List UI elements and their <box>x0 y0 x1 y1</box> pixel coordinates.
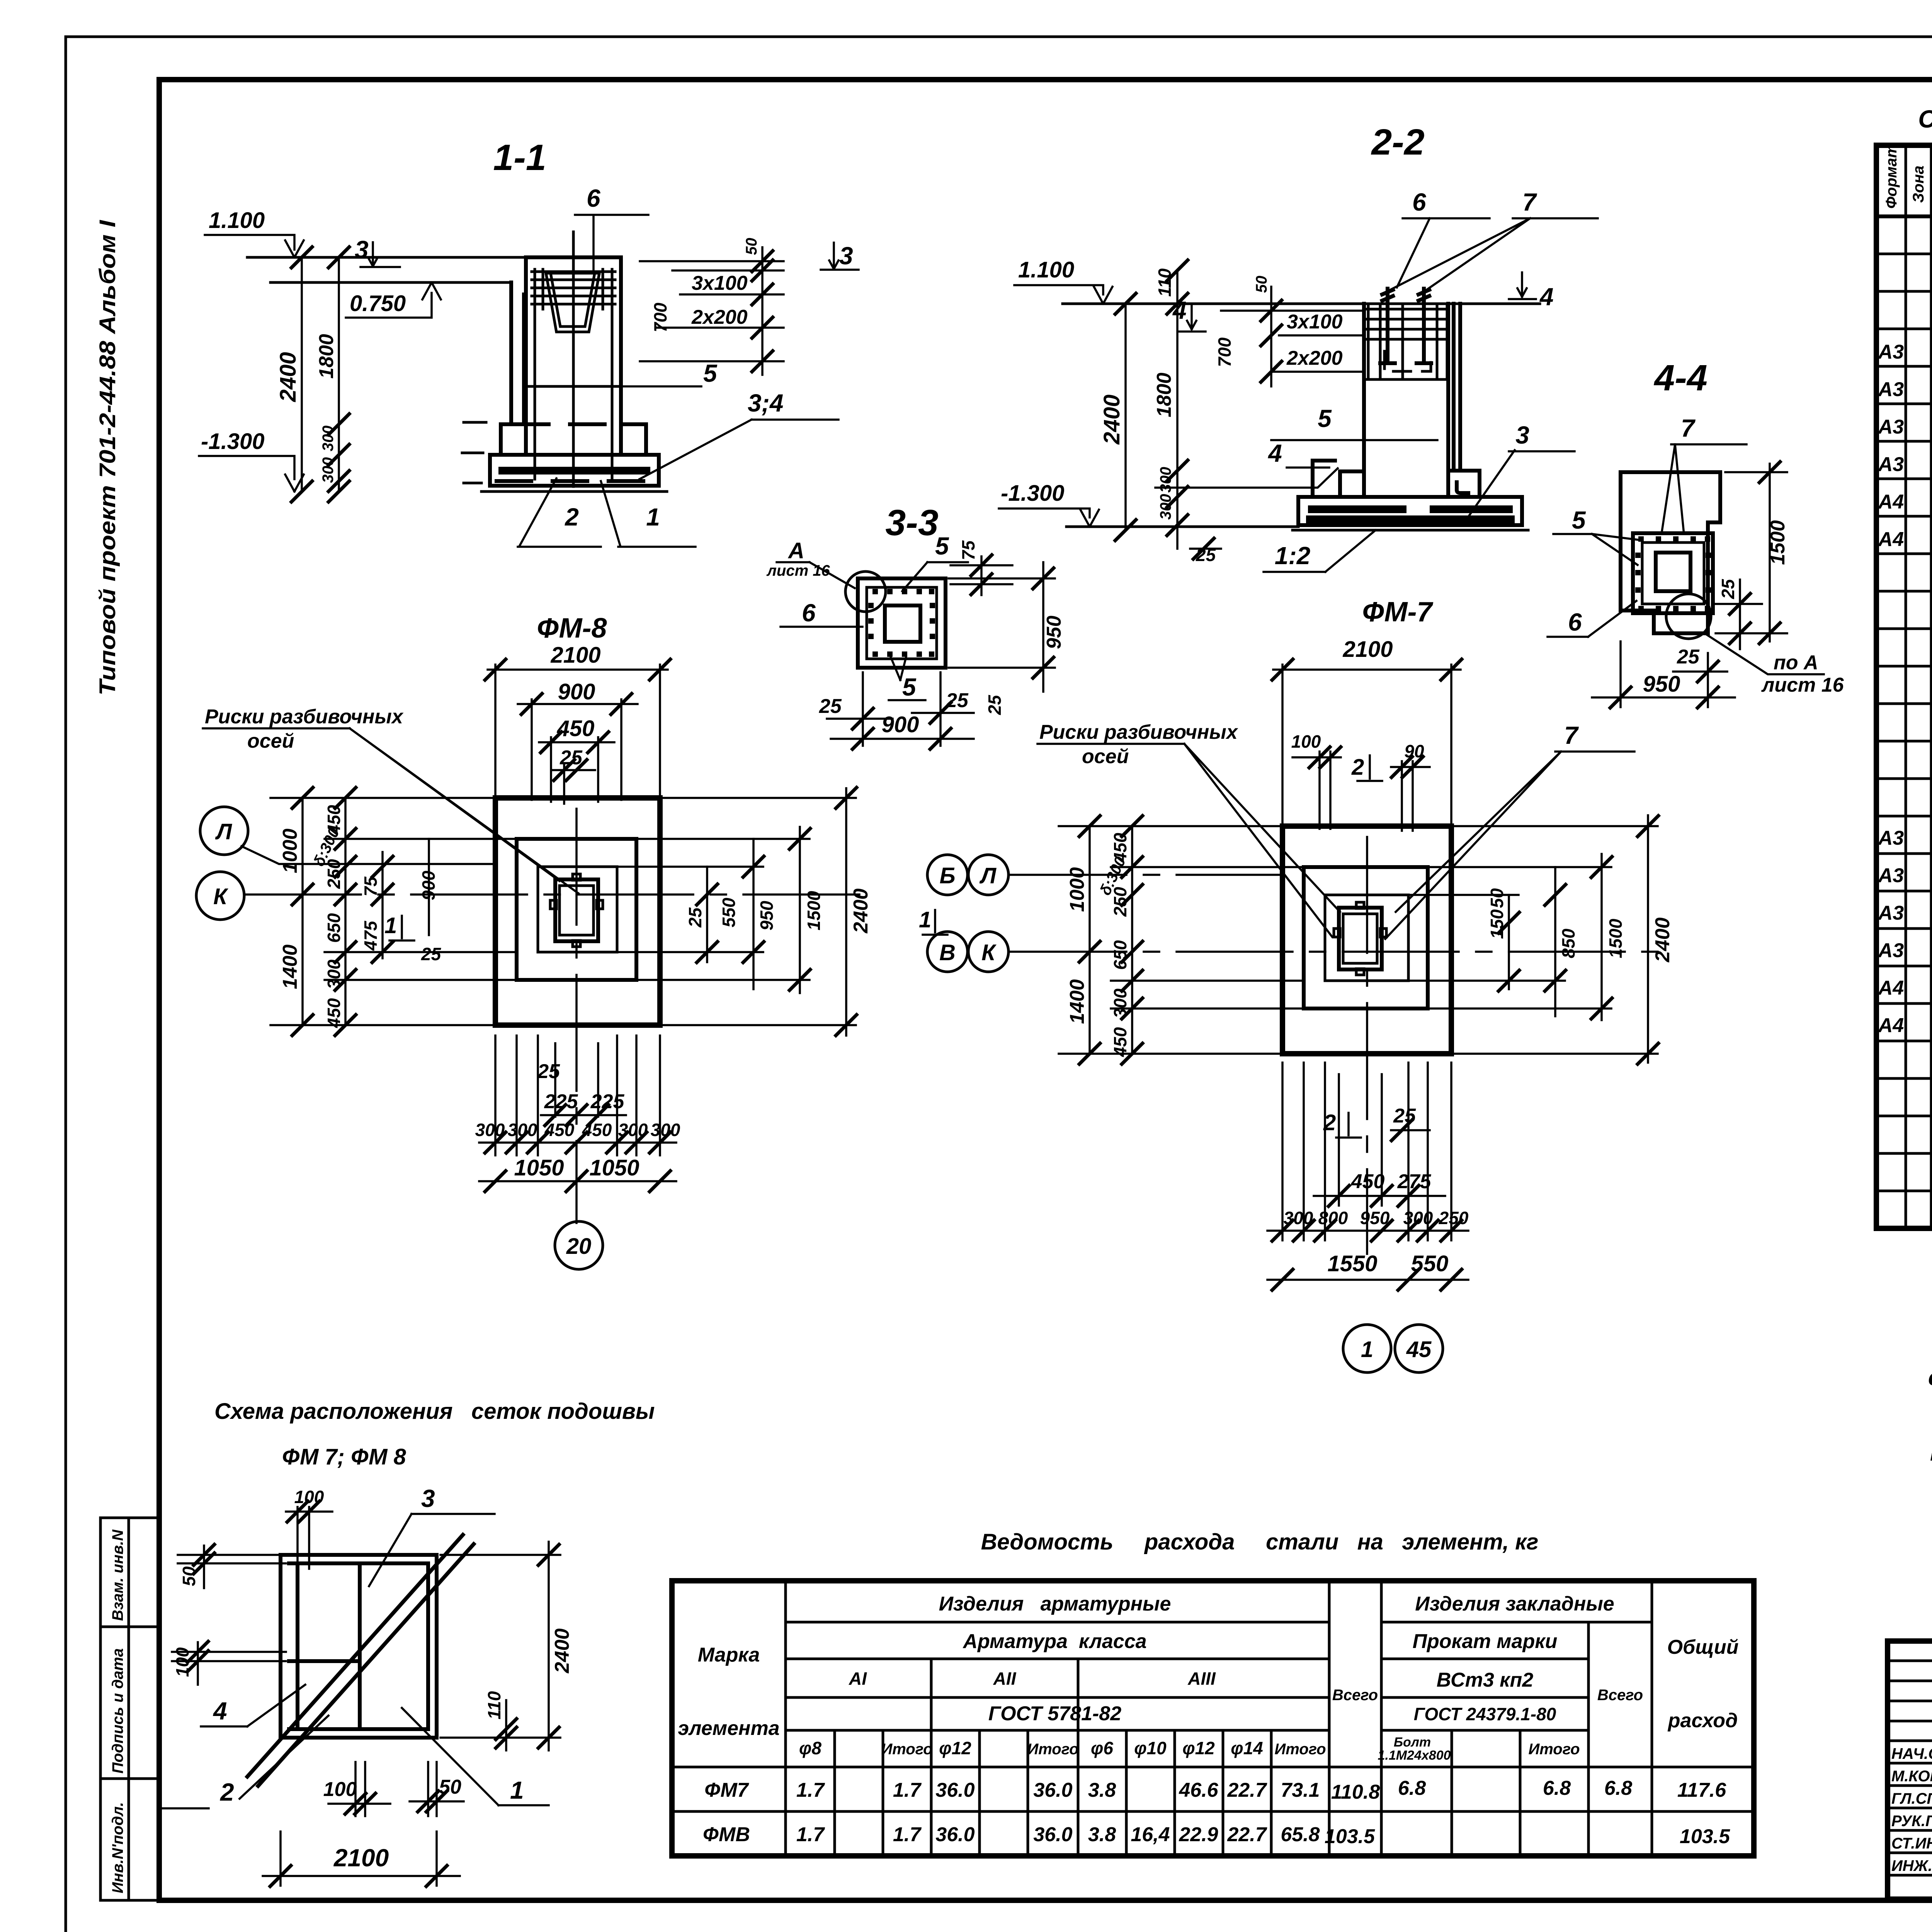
svg-text:А3: А3 <box>1878 864 1904 887</box>
top small dims 100 90 <box>1291 731 1430 831</box>
top dim 2100 <box>484 643 672 798</box>
svg-text:1.100: 1.100 <box>1018 257 1074 282</box>
level mark 1.100 <box>205 208 304 257</box>
bottom dims 25 900 25 <box>819 672 974 750</box>
label 1 <box>402 1708 549 1805</box>
top mesh grid <box>1366 306 1448 379</box>
svg-text:36.0: 36.0 <box>935 1823 975 1846</box>
svg-text:2: 2 <box>1351 755 1364 780</box>
outer footing square <box>495 798 660 1025</box>
svg-text:ВСт3 кп2: ВСт3 кп2 <box>1437 1669 1534 1691</box>
top dim 450 <box>539 716 614 802</box>
svg-text:Прокат марки: Прокат марки <box>1413 1630 1558 1653</box>
svg-text:1000: 1000 <box>1066 867 1088 912</box>
axis circles 1 45 <box>1343 1325 1391 1372</box>
inner border <box>867 587 937 659</box>
svg-text:К: К <box>213 884 228 909</box>
svg-text:φ12: φ12 <box>1182 1738 1215 1758</box>
label 6 <box>1548 601 1636 637</box>
dim 2400 vertical <box>276 246 313 503</box>
dim 950 right <box>949 562 1065 715</box>
svg-text:А3: А3 <box>1878 341 1904 363</box>
anchor bolts <box>1380 289 1431 363</box>
svg-text:300: 300 <box>1157 494 1174 520</box>
svg-text:110: 110 <box>1155 268 1175 297</box>
svg-text:А3: А3 <box>1878 453 1904 476</box>
label 5 <box>1553 506 1638 565</box>
step 3 square <box>1325 895 1408 981</box>
svg-text:450: 450 <box>1351 1170 1385 1193</box>
svg-text:М.КОНТР.: М.КОНТР. <box>1891 1768 1932 1785</box>
svg-text:А4: А4 <box>1878 491 1904 513</box>
svg-text:осей: осей <box>247 730 294 752</box>
svg-text:700: 700 <box>650 303 670 332</box>
svg-text:900: 900 <box>558 679 595 704</box>
svg-text:2100: 2100 <box>333 1844 389 1872</box>
svg-text:900: 900 <box>882 712 919 737</box>
svg-text:25: 25 <box>685 907 705 928</box>
svg-text:450: 450 <box>544 1120 575 1140</box>
dim 25 right <box>1716 578 1762 649</box>
svg-text:Типовой проект 701-2-44.88 Аль: Типовой проект 701-2-44.88 Альбом I <box>95 219 120 696</box>
svg-text:450: 450 <box>582 1120 612 1140</box>
spec table column lines <box>1906 145 1932 1228</box>
svg-text:475: 475 <box>361 920 381 951</box>
svg-text:16,4: 16,4 <box>1131 1823 1170 1846</box>
svg-text:100: 100 <box>1291 731 1321 752</box>
svg-text:кондукторных устройств.: кондукторных устройств. <box>1930 1440 1932 1466</box>
steel table horizontals <box>672 1622 1754 1811</box>
svg-text:36.0: 36.0 <box>1033 1823 1072 1846</box>
svg-text:950: 950 <box>1643 672 1680 697</box>
dim 1500 right <box>1716 461 1789 645</box>
svg-text:0.750: 0.750 <box>350 291 406 316</box>
section mark 1 left <box>384 913 414 940</box>
diagonal mesh C-3 <box>247 1535 474 1786</box>
svg-text:Взам. инв.N: Взам. инв.N <box>109 1529 126 1621</box>
svg-text:3х100: 3х100 <box>692 272 748 294</box>
node circle A <box>845 571 886 612</box>
svg-text:3: 3 <box>839 242 853 270</box>
svg-text:650: 650 <box>324 913 344 943</box>
axis vertical <box>575 809 578 1223</box>
left dim 450 250 650 300 450 <box>1097 815 1325 1065</box>
svg-text:Изделия арматурные: Изделия арматурные <box>939 1593 1171 1615</box>
axis К horizontal <box>1010 951 1662 953</box>
svg-text:Марка: Марка <box>698 1644 760 1666</box>
svg-text:950: 950 <box>757 901 777 930</box>
dim 100 left <box>172 1640 286 1685</box>
column outline <box>526 257 621 455</box>
svg-text:36.0: 36.0 <box>1033 1779 1072 1801</box>
base line <box>1293 529 1528 532</box>
svg-text:-1.300: -1.300 <box>1001 481 1064 506</box>
svg-text:7: 7 <box>1681 414 1696 442</box>
left dim 1000 1400 <box>270 786 495 1037</box>
dim 110 right <box>484 1691 518 1750</box>
svg-text:Схема расположения сеток под: Схема расположения сеток подошвы <box>214 1399 655 1424</box>
svg-text:2400: 2400 <box>850 888 872 934</box>
glass bolt marks <box>550 874 603 947</box>
glass (стакан) <box>546 273 599 332</box>
svg-text:150: 150 <box>1487 909 1507 939</box>
svg-text:1800: 1800 <box>315 334 338 379</box>
svg-text:Инв.N'подл.: Инв.N'подл. <box>109 1802 126 1893</box>
svg-text:по А: по А <box>1774 651 1818 674</box>
dim 2400 right <box>440 1542 573 1750</box>
svg-text:103.5: 103.5 <box>1680 1825 1730 1848</box>
svg-text:25: 25 <box>985 694 1005 715</box>
svg-text:1400: 1400 <box>1066 979 1088 1024</box>
level mark -1.300 <box>999 481 1298 527</box>
svg-text:300: 300 <box>320 425 337 451</box>
svg-text:2х200: 2х200 <box>691 306 748 328</box>
label 3 <box>1469 421 1575 515</box>
svg-text:5: 5 <box>902 673 917 701</box>
svg-text:А4: А4 <box>1878 528 1904 551</box>
svg-text:1: 1 <box>510 1776 524 1804</box>
svg-text:СТ.ИНЖ.: СТ.ИНЖ. <box>1891 1835 1932 1852</box>
svg-text:АI: АI <box>849 1668 867 1689</box>
section mark 3 right <box>821 242 859 270</box>
svg-text:110.8: 110.8 <box>1331 1781 1380 1803</box>
glass hole <box>1656 553 1690 591</box>
title block outer <box>1888 1641 1932 1899</box>
svg-text:Итого: Итого <box>1027 1741 1078 1758</box>
column axis line 1-1 <box>572 232 575 486</box>
svg-text:Изделия закладные: Изделия закладные <box>1415 1593 1614 1615</box>
svg-text:ФМ-8: ФМ-8 <box>537 613 607 644</box>
section mark 1 left <box>919 907 947 935</box>
svg-text:РУК.ГР.: РУК.ГР. <box>1891 1813 1932 1830</box>
svg-text:1.7: 1.7 <box>796 1779 825 1801</box>
svg-text:20: 20 <box>566 1234 592 1259</box>
svg-text:1500: 1500 <box>1605 918 1626 958</box>
label 7 <box>1662 414 1747 534</box>
axis circles В К <box>927 932 968 972</box>
svg-text:2: 2 <box>220 1778 234 1806</box>
node label A лист 16 <box>766 538 855 588</box>
base line <box>481 490 667 493</box>
svg-text:А3: А3 <box>1878 827 1904 849</box>
svg-text:2400: 2400 <box>1651 917 1674 963</box>
svg-text:100: 100 <box>294 1487 324 1507</box>
wall top line <box>270 281 511 284</box>
svg-text:Спецификация на монолитные: Спецификация на монолитные фундаменты ФМ… <box>1918 105 1932 133</box>
svg-text:2: 2 <box>1323 1110 1336 1135</box>
label 3;4 <box>639 389 838 479</box>
svg-text:ФМ 7; ФМ 8: ФМ 7; ФМ 8 <box>282 1444 406 1469</box>
svg-text:1: 1 <box>646 503 660 531</box>
svg-text:250: 250 <box>1439 1208 1469 1228</box>
svg-text:2100: 2100 <box>1342 637 1393 662</box>
svg-text:300: 300 <box>1157 467 1174 493</box>
mesh bars top <box>532 269 615 479</box>
column glass outer <box>1339 908 1382 969</box>
svg-text:Всего: Всего <box>1332 1687 1378 1704</box>
svg-text:Зона: Зона <box>1910 165 1927 203</box>
svg-text:ИНЖ.: ИНЖ. <box>1891 1857 1932 1874</box>
svg-text:Формат: Формат <box>1883 144 1900 209</box>
svg-text:3: 3 <box>1515 421 1529 449</box>
svg-text:75: 75 <box>958 540 978 560</box>
svg-text:800: 800 <box>1318 1208 1348 1228</box>
svg-text:ФМВ: ФМВ <box>703 1823 750 1846</box>
svg-text:АIII: АIII <box>1187 1668 1216 1689</box>
svg-text:А3: А3 <box>1878 378 1904 401</box>
svg-text:25: 25 <box>537 1060 560 1083</box>
dim 50 bottom <box>410 1762 464 1816</box>
svg-text:3х100: 3х100 <box>1287 311 1343 333</box>
svg-text:6: 6 <box>1412 188 1426 216</box>
left steps <box>1313 461 1364 497</box>
svg-text:А4: А4 <box>1878 977 1904 999</box>
svg-text:46.6: 46.6 <box>1179 1779 1218 1801</box>
svg-text:650: 650 <box>1110 940 1130 970</box>
svg-text:-1.300: -1.300 <box>201 429 264 454</box>
column glass inner <box>1343 914 1377 963</box>
svg-text:1.7: 1.7 <box>893 1779 922 1801</box>
bottom dims <box>1282 1063 1451 1240</box>
svg-text:ГЛ.СПЕЦ.: ГЛ.СПЕЦ. <box>1891 1790 1932 1807</box>
top dim 2100 <box>1271 637 1463 826</box>
svg-text:1.7: 1.7 <box>796 1823 825 1846</box>
step 3 square <box>538 867 617 952</box>
axis К horizontal <box>245 893 869 896</box>
left dim 1000 1400 <box>1059 815 1282 1065</box>
footing mesh thick bars <box>1306 509 1515 519</box>
svg-text:75: 75 <box>361 876 381 896</box>
label 7 bolts <box>1390 188 1598 290</box>
svg-text:6: 6 <box>802 599 816 627</box>
label 5 bottom <box>889 657 925 701</box>
column glass inner <box>560 886 594 935</box>
floor level line <box>247 256 526 259</box>
svg-text:36.0: 36.0 <box>935 1779 975 1801</box>
svg-text:2400: 2400 <box>551 1628 573 1673</box>
cage dots <box>1635 536 1711 611</box>
right dims 150 50 850 1500 2400 <box>1408 815 1674 1065</box>
svg-text:6: 6 <box>1568 608 1582 636</box>
label 4 <box>201 1685 305 1726</box>
step 2 square <box>1304 867 1428 1009</box>
svg-text:2100: 2100 <box>550 643 600 668</box>
svg-text:Арматура класса: Арматура класса <box>962 1630 1146 1653</box>
svg-text:110: 110 <box>484 1691 504 1719</box>
level mark 1.100 <box>1014 257 1112 304</box>
svg-text:2-2: 2-2 <box>1371 122 1424 163</box>
svg-text:300: 300 <box>320 457 337 483</box>
svg-text:450: 450 <box>324 998 344 1028</box>
svg-text:1-1: 1-1 <box>493 137 546 178</box>
svg-text:3-3: 3-3 <box>885 502 938 543</box>
leader риски разбивочных осей <box>1037 721 1340 937</box>
svg-text:117.6: 117.6 <box>1677 1779 1726 1801</box>
svg-text:50: 50 <box>1487 888 1507 908</box>
outer square <box>858 578 946 668</box>
svg-text:700: 700 <box>1214 337 1235 367</box>
svg-text:73.1: 73.1 <box>1281 1779 1320 1801</box>
axis vertical <box>1366 837 1368 1254</box>
rebar label 5 <box>621 359 718 387</box>
svg-text:5: 5 <box>1572 506 1586 534</box>
svg-text:300: 300 <box>1403 1208 1433 1228</box>
step 2 square <box>517 839 636 980</box>
svg-text:А3: А3 <box>1878 939 1904 962</box>
svg-text:3;4: 3;4 <box>748 389 784 417</box>
svg-text:22.7: 22.7 <box>1227 1779 1267 1801</box>
svg-text:3.8: 3.8 <box>1088 1779 1116 1801</box>
spec table header bottom <box>1876 214 1932 218</box>
column outline <box>1364 304 1448 497</box>
svg-text:Болт: Болт <box>1394 1735 1431 1750</box>
svg-text:Итого: Итого <box>881 1741 932 1758</box>
dim 1800 300 300 vertical <box>315 246 350 503</box>
svg-text:1: 1 <box>919 907 931 932</box>
svg-text:4: 4 <box>213 1697 227 1725</box>
dim 100 top <box>286 1487 332 1569</box>
left dim 450 250 650 300 450 <box>310 786 538 1037</box>
dim 2400 vertical <box>1099 292 1137 542</box>
svg-text:Риски разбивочных: Риски разбивочных <box>1039 721 1238 743</box>
dim 2100 bottom <box>263 1832 460 1888</box>
svg-text:300: 300 <box>1110 988 1130 1018</box>
footing mesh thick bars <box>498 467 650 474</box>
svg-text:φ10: φ10 <box>1134 1738 1167 1758</box>
right bracket step <box>1450 471 1480 497</box>
svg-text:ФМ-7: ФМ-7 <box>1362 597 1433 628</box>
footing slab <box>1298 497 1522 525</box>
svg-text:2400: 2400 <box>1099 395 1124 445</box>
axis circle Л <box>200 807 248 855</box>
glass bolt marks <box>1334 902 1386 975</box>
svg-text:1050: 1050 <box>514 1155 564 1180</box>
svg-text:φ12: φ12 <box>939 1738 971 1758</box>
svg-text:22.9: 22.9 <box>1179 1823 1218 1846</box>
svg-text:2х200: 2х200 <box>1286 347 1343 369</box>
body outline <box>1621 472 1720 633</box>
svg-text:6: 6 <box>587 184 600 212</box>
left stamp boxes <box>100 1518 159 1900</box>
svg-text:Л: Л <box>979 863 997 888</box>
mid mesh 5 <box>526 385 621 388</box>
svg-text:1000: 1000 <box>279 828 301 873</box>
right dim block 50 3x100 2x200 700 <box>640 238 784 375</box>
mesh band dots <box>868 589 935 657</box>
level mark -1.300 <box>199 429 304 492</box>
svg-text:А3: А3 <box>1878 902 1904 924</box>
spec ФМВ item rows <box>1878 340 1932 551</box>
svg-text:1550: 1550 <box>1327 1251 1377 1276</box>
svg-text:φ14: φ14 <box>1231 1738 1263 1758</box>
svg-text:1500: 1500 <box>804 891 824 930</box>
axis Л horizontal <box>1010 874 1282 876</box>
svg-text:осей: осей <box>1082 745 1129 768</box>
leader риски разбивочных осей <box>203 706 578 893</box>
spec table row lines <box>1876 254 1932 1191</box>
svg-text:А: А <box>787 538 804 563</box>
svg-text:лист 16: лист 16 <box>766 562 830 579</box>
svg-text:25: 25 <box>1718 578 1738 599</box>
svg-text:7: 7 <box>1522 188 1537 216</box>
broken concrete dashes <box>497 424 653 481</box>
dim block 50 3x100 2x200 700 <box>1214 276 1364 387</box>
footing slab <box>490 455 659 486</box>
svg-text:расход: расход <box>1667 1709 1738 1732</box>
svg-text:Л: Л <box>215 819 232 844</box>
label 5 top <box>902 532 968 591</box>
svg-text:1: 1 <box>1361 1337 1373 1362</box>
label 4 <box>1155 439 1338 488</box>
label 3 <box>369 1485 495 1586</box>
svg-text:550: 550 <box>719 898 739 927</box>
right pier <box>1454 304 1460 468</box>
axis circles Б Л <box>927 855 968 895</box>
svg-text:1050: 1050 <box>589 1155 639 1180</box>
svg-text:слой, указанный на чертеже: слой, указанный на чертеже. <box>1928 1365 1932 1390</box>
svg-text:450: 450 <box>557 716 595 741</box>
top dim 900 <box>518 679 638 800</box>
bottom dims <box>475 1036 680 1193</box>
svg-text:5: 5 <box>935 532 949 560</box>
svg-text:Итого: Итого <box>1274 1741 1326 1758</box>
dim 75 right <box>951 540 1012 596</box>
glass hole <box>885 605 920 642</box>
axis circle К <box>196 872 244 920</box>
slope mark 1:2 <box>1264 530 1376 572</box>
svg-text:2400: 2400 <box>276 352 301 402</box>
svg-text:А4: А4 <box>1878 1014 1904 1037</box>
bottom dims 950 25 <box>1592 641 1735 709</box>
svg-text:6.8: 6.8 <box>1398 1777 1426 1799</box>
svg-text:300: 300 <box>324 959 344 989</box>
section mark 2 top <box>1351 755 1382 781</box>
label 6 bolt <box>1397 188 1490 287</box>
axis circle 20 <box>555 1221 603 1269</box>
svg-text:50: 50 <box>743 238 760 255</box>
steel table outer box <box>672 1581 1754 1856</box>
svg-text:2: 2 <box>565 503 579 531</box>
svg-text:950: 950 <box>1043 616 1065 649</box>
svg-text:225: 225 <box>590 1090 625 1113</box>
svg-text:АII: АII <box>993 1668 1017 1689</box>
svg-text:Общий: Общий <box>1667 1636 1739 1658</box>
svg-text:А3: А3 <box>1878 416 1904 438</box>
column step <box>501 424 646 455</box>
scheme square <box>281 1555 437 1738</box>
svg-text:НАЧ.ОТД.: НАЧ.ОТД. <box>1891 1745 1932 1762</box>
svg-text:Итого: Итого <box>1528 1741 1580 1758</box>
floor level line <box>1063 303 1540 305</box>
wall <box>511 282 524 424</box>
svg-text:25: 25 <box>946 689 969 712</box>
svg-text:φ8: φ8 <box>799 1738 821 1758</box>
svg-text:φ6: φ6 <box>1091 1738 1113 1758</box>
svg-text:25: 25 <box>1393 1105 1416 1127</box>
svg-text:1.100: 1.100 <box>209 208 265 233</box>
section mark 2 bottom <box>1323 1105 1430 1142</box>
right dims 25 550 950 1500 2400 <box>598 786 872 1037</box>
svg-text:900: 900 <box>418 871 439 900</box>
svg-text:1400: 1400 <box>279 944 301 989</box>
svg-text:лист 16: лист 16 <box>1761 674 1844 696</box>
section mark 4 right <box>1509 272 1554 311</box>
label 2 <box>518 478 601 547</box>
svg-text:3.8: 3.8 <box>1088 1823 1116 1846</box>
svg-text:4: 4 <box>1539 283 1554 311</box>
svg-text:450: 450 <box>1110 1027 1130 1057</box>
svg-text:4-4: 4-4 <box>1653 357 1707 398</box>
